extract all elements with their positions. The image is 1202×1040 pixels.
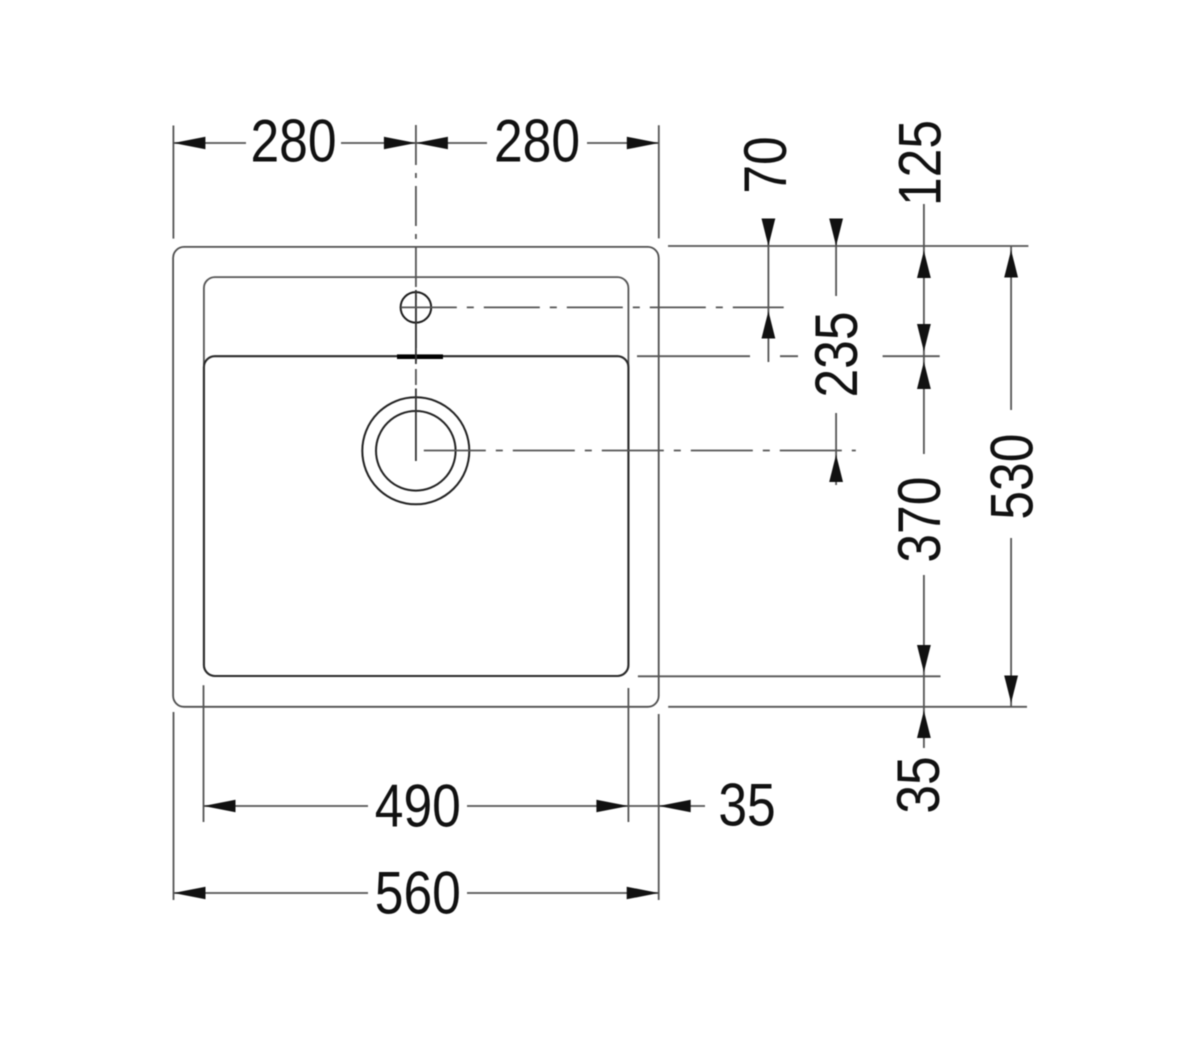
dim 125 and 370 and 35 vertical chain	[923, 204, 925, 454]
dim 560	[174, 892, 369, 894]
dim 280 left line	[173, 142, 246, 144]
drain outer circle	[362, 397, 469, 504]
svg-text:370: 370	[885, 477, 953, 563]
label 280 left	[250, 107, 336, 175]
extension line bowl bottom right	[638, 675, 941, 677]
drain inner circle	[376, 411, 456, 491]
svg-text:490: 490	[375, 772, 461, 840]
inner rim line	[204, 277, 629, 676]
svg-text:560: 560	[375, 859, 461, 927]
svg-text:530: 530	[978, 434, 1046, 520]
centerline faucet horizontal	[401, 306, 784, 308]
label 280 right	[494, 107, 580, 175]
svg-text:70: 70	[732, 136, 800, 193]
dim 490	[204, 805, 369, 807]
extension line sink bottom right	[668, 706, 1027, 708]
dim 35 horizontal	[628, 805, 658, 807]
svg-text:35: 35	[885, 756, 953, 813]
centerline vertical	[415, 125, 417, 385]
svg-text:280: 280	[494, 107, 580, 175]
extension line top left	[172, 126, 174, 239]
dim 280 right line	[416, 142, 487, 144]
extension line sink top right	[668, 245, 1028, 247]
svg-text:35: 35	[718, 771, 775, 839]
svg-text:280: 280	[250, 107, 336, 175]
svg-text:235: 235	[802, 311, 870, 397]
dim 530	[1010, 246, 1012, 410]
faucet hole	[401, 292, 432, 323]
bottom extension lines	[173, 712, 175, 900]
dim 70	[767, 219, 769, 362]
tap ledge bar	[397, 354, 443, 359]
extension line bowl top right	[637, 355, 750, 357]
bowl	[204, 356, 629, 676]
extension line top right	[658, 125, 660, 238]
sink outer rim	[173, 247, 659, 707]
svg-text:125: 125	[886, 120, 954, 206]
dim 235	[835, 219, 837, 296]
centerline drain horizontal	[424, 450, 856, 452]
